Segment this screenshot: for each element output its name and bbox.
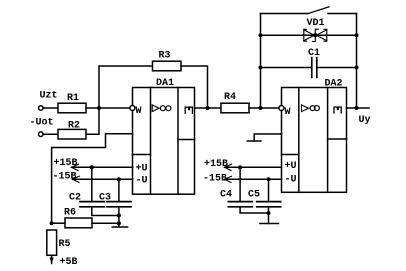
arrow -15B DA1 bbox=[73, 176, 80, 182]
op-amp DA2 box bbox=[282, 88, 347, 193]
wire DA2 +U supply bbox=[225, 166, 282, 168]
svg-text:R2: R2 bbox=[68, 120, 80, 131]
svg-text:DA1: DA1 bbox=[156, 78, 174, 89]
wire DA2 -U supply bbox=[225, 178, 282, 180]
node R5/R6 bbox=[50, 221, 54, 225]
ground bar below C5 bbox=[260, 223, 279, 225]
svg-text:C2: C2 bbox=[69, 192, 81, 203]
arrow +5B down bbox=[50, 258, 54, 264]
svg-text:+15B: +15B bbox=[54, 158, 78, 169]
bidirectional zener VD1 bbox=[304, 29, 327, 41]
DA1 right column divider line bbox=[178, 139, 195, 141]
switch wire left bbox=[261, 13, 309, 15]
node junction R1/R2/R3 bbox=[97, 106, 101, 110]
svg-text:C1: C1 bbox=[308, 48, 320, 59]
node C1 right bbox=[355, 66, 359, 70]
node C2/C3 join bbox=[117, 214, 121, 218]
node C3 tap bbox=[117, 177, 121, 181]
DA2 infinity symbol bbox=[310, 106, 315, 111]
wire C5 top bbox=[268, 179, 270, 201]
node C2 tap bbox=[90, 165, 94, 169]
wire R6 right bbox=[92, 222, 119, 224]
svg-text:+15B: +15B bbox=[204, 159, 228, 170]
wire DA2 output bbox=[347, 107, 370, 109]
ground bar near R6 bbox=[112, 223, 127, 227]
DA2 column divider left bbox=[298, 88, 300, 193]
wire DA1 +U supply bbox=[72, 166, 133, 168]
wire feedback loop right vertical bbox=[356, 14, 358, 109]
wire C1 row right bbox=[317, 67, 357, 69]
wire C2 top bbox=[91, 167, 93, 201]
DA1 column divider left bbox=[150, 88, 152, 195]
svg-text:R5: R5 bbox=[59, 239, 71, 250]
node VD1 right bbox=[355, 33, 359, 37]
node R6/C3/ground bbox=[117, 221, 121, 225]
svg-text:R3: R3 bbox=[159, 50, 171, 61]
wire C4 top bbox=[239, 167, 241, 201]
node DA2 input bbox=[259, 106, 263, 110]
svg-text:Uzt: Uzt bbox=[40, 90, 58, 101]
wire C4 bottom to C5 branch bbox=[240, 207, 268, 213]
DA1 left column divider line bbox=[133, 154, 151, 156]
wire C5 bottom to ground bbox=[268, 207, 270, 223]
wire C1 row left bbox=[261, 67, 312, 69]
DA2 column divider right bbox=[327, 88, 329, 193]
wire R6 left to R5 node bbox=[52, 222, 65, 224]
node C4 tap bbox=[238, 165, 242, 169]
input terminal Uzt bbox=[39, 106, 44, 111]
node VD1 center bbox=[313, 33, 317, 37]
node C4/C5 join bbox=[267, 211, 271, 215]
wire R4 to DA2 inverting input bbox=[249, 107, 278, 109]
wire R3 left branch bbox=[99, 66, 153, 108]
capacitor C3 bbox=[107, 202, 131, 207]
DA2 inverting input circle bbox=[279, 106, 284, 111]
svg-text:-Uot: -Uot bbox=[30, 118, 54, 129]
DA1 infinity symbol bbox=[160, 106, 165, 111]
node C1 left bbox=[259, 66, 263, 70]
wire R2 up to node bbox=[86, 108, 99, 134]
svg-text:R4: R4 bbox=[224, 92, 236, 103]
DA2 amplifier triangle bbox=[302, 105, 309, 112]
wire feedback loop left vertical bbox=[260, 14, 262, 109]
capacitor C2 bbox=[80, 202, 104, 207]
switch wire right bbox=[328, 13, 357, 15]
svg-text:C5: C5 bbox=[248, 190, 260, 201]
wire VD1 row bbox=[261, 34, 357, 36]
input terminal -Uot bbox=[39, 132, 44, 137]
svg-text:R1: R1 bbox=[67, 93, 79, 104]
wire R5 bottom bbox=[51, 255, 53, 263]
svg-text:W: W bbox=[285, 107, 291, 118]
DA2 output stage m symbol bbox=[334, 107, 341, 113]
svg-text:DA2: DA2 bbox=[325, 79, 343, 90]
wire DA1 output to R4 bbox=[195, 107, 222, 109]
arrow -15B DA2 bbox=[225, 176, 232, 182]
DA1 amplifier triangle bbox=[152, 105, 159, 112]
wire DA1 -U supply bbox=[73, 178, 133, 180]
wire -Uot to R2 bbox=[43, 133, 58, 135]
DA2 right column divider line bbox=[328, 138, 347, 140]
resistor R3 bbox=[153, 61, 182, 71]
ground bar DA2 input bbox=[247, 140, 261, 142]
svg-text:+5B: +5B bbox=[60, 257, 78, 268]
wire DA1 non-inverting input to R5/R6 node bbox=[52, 134, 133, 223]
svg-text:VD1: VD1 bbox=[307, 18, 325, 29]
node DA2 output bbox=[355, 106, 359, 110]
wire C2 bottom to C3 branch bbox=[92, 207, 119, 215]
svg-text:Uy: Uy bbox=[359, 115, 371, 126]
node DA1 output bbox=[206, 106, 210, 110]
node VD1 left bbox=[259, 33, 263, 37]
wire R1 to DA1 inverting input bbox=[86, 107, 130, 109]
svg-text:-15B: -15B bbox=[53, 171, 77, 182]
capacitor C4 bbox=[228, 202, 252, 207]
arrow +15B DA1 bbox=[72, 164, 79, 170]
resistor R2 bbox=[58, 129, 86, 139]
switch lever bbox=[308, 7, 330, 14]
resistor R5 bbox=[47, 230, 57, 255]
svg-text:-U: -U bbox=[136, 175, 148, 186]
wire DA2 non-inverting input to ground bbox=[254, 134, 281, 141]
svg-text:-U: -U bbox=[285, 174, 297, 185]
capacitor C1 bbox=[312, 58, 317, 78]
wire C3 top bbox=[118, 179, 120, 201]
arrow +15B DA2 bbox=[225, 164, 232, 170]
svg-text:W: W bbox=[136, 106, 142, 117]
resistor R1 bbox=[58, 103, 86, 113]
DA1 column divider right bbox=[177, 88, 179, 195]
resistor R6 bbox=[65, 218, 92, 228]
wire Uzt to R1 bbox=[43, 107, 58, 109]
svg-text:C3: C3 bbox=[99, 192, 111, 203]
svg-text:+U: +U bbox=[285, 161, 297, 172]
node C5 tap bbox=[267, 177, 271, 181]
svg-text:-15B: -15B bbox=[203, 174, 227, 185]
DA1 inverting input circle bbox=[130, 106, 135, 111]
op-amp DA1 box bbox=[133, 88, 195, 195]
svg-text:C4: C4 bbox=[220, 190, 232, 201]
resistor R4 bbox=[221, 103, 249, 113]
DA1 output stage m symbol bbox=[185, 107, 192, 113]
svg-text:+U: +U bbox=[136, 164, 148, 175]
svg-text:R6: R6 bbox=[64, 207, 76, 218]
wire C3 bottom bbox=[118, 207, 120, 223]
capacitor C5 bbox=[257, 202, 281, 207]
DA2 left column divider line bbox=[282, 154, 299, 156]
wire R3 right branch to DA1 output bbox=[181, 66, 208, 108]
